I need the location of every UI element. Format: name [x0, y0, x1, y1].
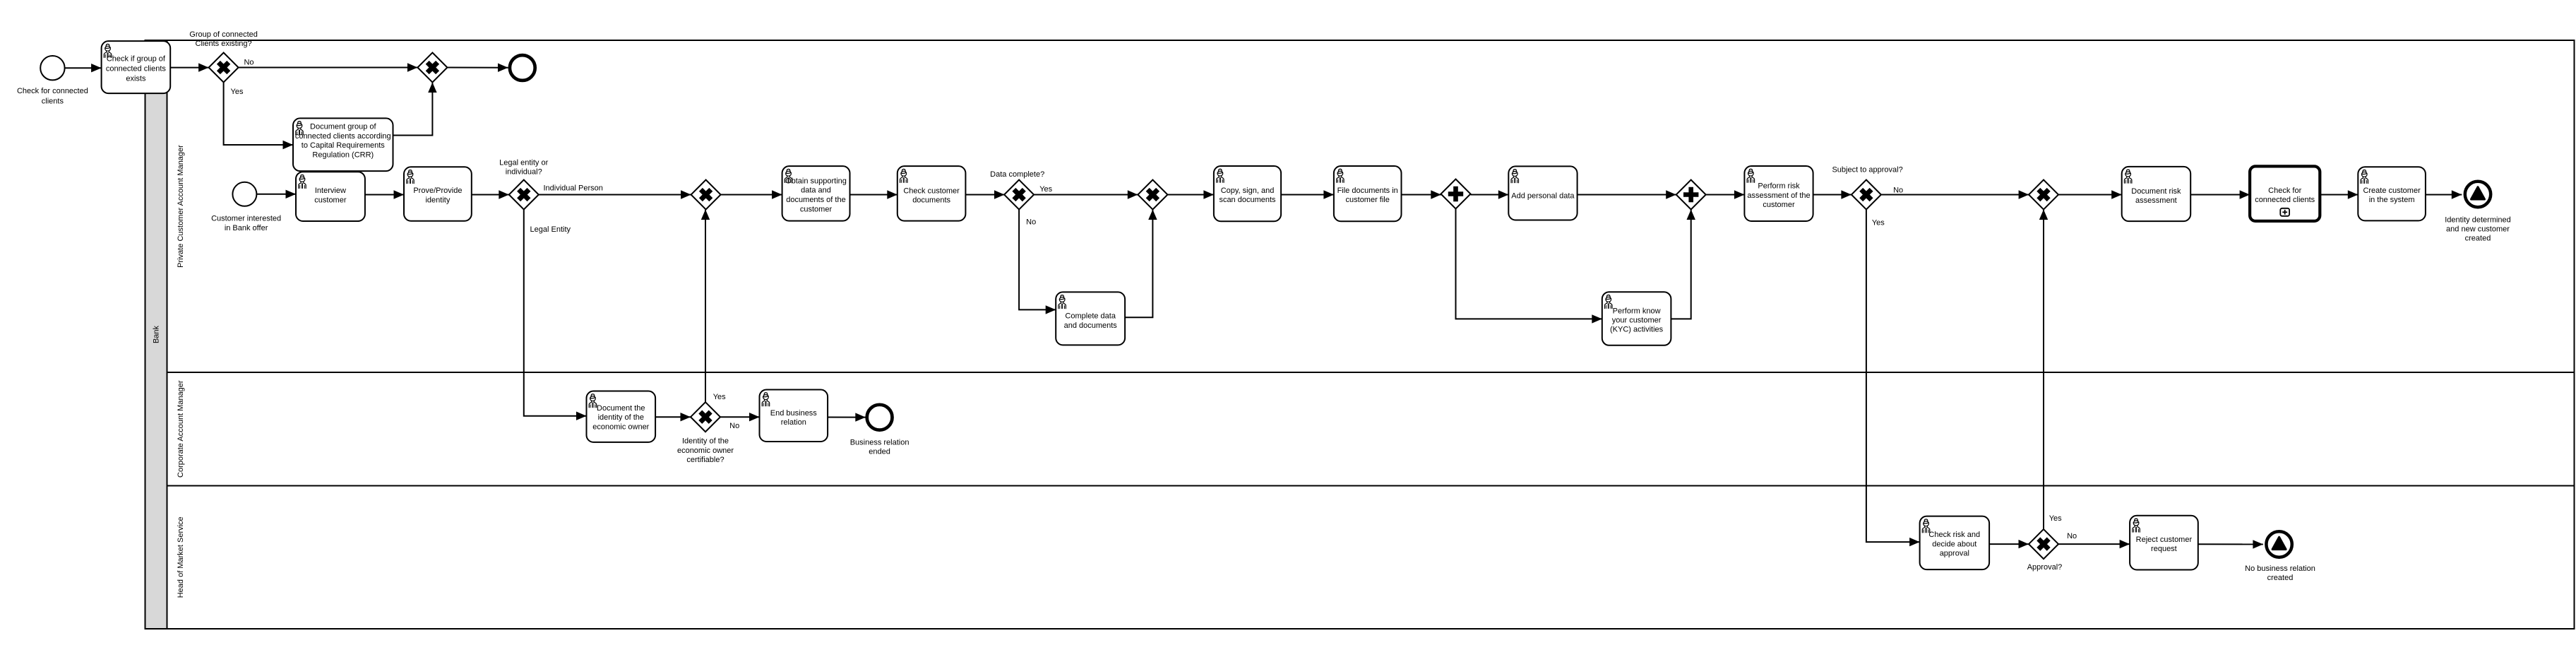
wire parallel1 to Add personal data [1471, 190, 1509, 199]
svg-text:connected clients: connected clients [106, 64, 166, 73]
gateway Data complete? [1004, 180, 1034, 210]
svg-text:customer: customer [800, 206, 833, 214]
svg-text:Obtain supporting: Obtain supporting [785, 177, 847, 185]
task Check if group of connected clients exists [102, 41, 171, 93]
svg-text:Yes: Yes [1039, 185, 1052, 194]
svg-text:Check risk and: Check risk and [1928, 531, 1980, 539]
wire gateway2 to end event1 [447, 64, 508, 72]
task Document risk assessment [2122, 167, 2191, 221]
svg-text:Document the: Document the [597, 404, 645, 413]
svg-text:created: created [2267, 574, 2294, 582]
wire Interview to Prove/Provide [365, 190, 404, 199]
parallel gateway join [1676, 180, 1706, 210]
end event Identity determined (signal) [2465, 182, 2491, 207]
task Reject customer request [2130, 516, 2198, 570]
wire task Check-if-group to gateway1 [170, 63, 208, 71]
svg-text:identity of the: identity of the [598, 413, 644, 422]
svg-text:Complete data: Complete data [1065, 312, 1116, 321]
svg-text:File documents in: File documents in [1337, 187, 1398, 195]
svg-text:data and: data and [801, 187, 831, 195]
wire No to merge gateway8 [1881, 190, 2029, 199]
wire merge6 to Copy sign scan [1167, 190, 1214, 199]
svg-text:approval: approval [1940, 550, 1969, 558]
svg-text:and new customer: and new customer [2446, 225, 2510, 233]
svg-text:Check for: Check for [2268, 187, 2301, 195]
svg-text:Individual Person: Individual Person [544, 184, 603, 193]
svg-text:No business relation: No business relation [2245, 565, 2315, 573]
svg-text:economic owner: economic owner [677, 447, 734, 455]
svg-text:and documents: and documents [1064, 321, 1118, 330]
task Add personal data [1508, 166, 1577, 220]
wire start2 to Interview customer [256, 190, 296, 199]
gateway Subject to approval? [1851, 180, 1881, 210]
svg-text:Prove/Provide: Prove/Provide [413, 187, 462, 195]
svg-text:Check if group of: Check if group of [107, 55, 166, 64]
svg-text:assessment: assessment [2135, 196, 2177, 205]
svg-text:Data complete?: Data complete? [990, 170, 1044, 179]
svg-text:Bank: Bank [153, 325, 161, 343]
svg-text:scan documents: scan documents [1219, 196, 1276, 204]
wire Create-customer to end event [2426, 190, 2462, 199]
task Copy, sign, and scan documents [1214, 166, 1281, 221]
gateway Approval? [2029, 529, 2058, 559]
svg-text:your customer: your customer [1612, 316, 1662, 324]
svg-text:Legal entity or: Legal entity or [499, 158, 548, 167]
svg-text:created: created [2465, 234, 2491, 242]
task Interview customer [296, 172, 365, 221]
svg-text:Head of Market Service: Head of Market Service [177, 516, 185, 598]
task Create customer in the system [2358, 167, 2426, 220]
svg-text:Legal Entity: Legal Entity [530, 225, 571, 234]
merge gateway2 (top) [417, 53, 447, 83]
svg-text:Corporate Account Manager: Corporate Account Manager [177, 380, 185, 478]
wire Legal Entity down to Document-identity [524, 210, 587, 420]
task End business relation [760, 390, 828, 442]
task Check risk and decide about approval [1920, 516, 1990, 570]
gateway Legal entity or individual? [509, 180, 539, 210]
svg-text:Create customer: Create customer [2363, 187, 2421, 195]
svg-text:in Bank offer: in Bank offer [225, 224, 268, 232]
svg-text:relation: relation [781, 418, 806, 427]
svg-text:Yes: Yes [231, 88, 244, 96]
svg-text:End business: End business [770, 409, 818, 418]
wire start1 to task Check-if-group [65, 64, 102, 72]
gateway Group of connected Clients existing? [209, 53, 239, 83]
svg-text:exists: exists [126, 74, 146, 83]
gateway Identity of the economic owner certifiable? [691, 402, 720, 432]
svg-text:No: No [244, 58, 254, 66]
svg-text:Reject customer: Reject customer [2136, 536, 2193, 544]
svg-text:Check customer: Check customer [903, 187, 960, 196]
svg-text:Regulation (CRR): Regulation (CRR) [312, 150, 374, 159]
wire Add-personal to parallel gateway2 [1578, 190, 1676, 199]
wire subprocess to Create customer [2320, 190, 2358, 199]
svg-text:connected clients: connected clients [2255, 196, 2315, 204]
svg-text:Clients existing?: Clients existing? [196, 40, 252, 48]
wire No to merge gateway2 [239, 63, 418, 71]
svg-text:Subject to approval?: Subject to approval? [1832, 166, 1902, 175]
wire Reject to end event [2198, 540, 2263, 548]
task Perform risk assessment of the customer [1744, 166, 1813, 221]
wire Complete-data to merge gateway6 [1125, 210, 1157, 318]
task File documents in customer file [1334, 166, 1402, 221]
task Prove/Provide identity [404, 167, 472, 220]
svg-text:No: No [1893, 187, 1903, 195]
svg-text:Identity of the: Identity of the [682, 437, 729, 446]
svg-text:Yes: Yes [713, 393, 726, 401]
svg-text:identity: identity [425, 196, 450, 205]
svg-text:request: request [2151, 545, 2177, 553]
wire Perform-risk to gateway Subject-to-approval [1813, 190, 1851, 199]
svg-text:Approval?: Approval? [2027, 563, 2063, 572]
svg-text:Identity determined: Identity determined [2445, 216, 2511, 225]
wire Yes down to Check risk (lane3) [1866, 210, 1920, 547]
svg-text:Copy, sign, and: Copy, sign, and [1221, 187, 1275, 195]
task Perform know your customer (KYC) activities [1602, 292, 1671, 345]
svg-text:connected clients according: connected clients according [295, 132, 391, 141]
svg-text:documents: documents [912, 196, 950, 205]
task Check customer documents [898, 166, 966, 221]
svg-text:No: No [1026, 218, 1036, 227]
svg-text:No: No [2067, 532, 2077, 540]
wire parallel2 to Perform risk assessment [1706, 190, 1745, 199]
svg-text:Check for connected: Check for connected [17, 87, 88, 95]
wire Check-docs to gateway Data complete? [965, 190, 1004, 199]
svg-text:customer: customer [1763, 201, 1795, 209]
svg-text:Perform know: Perform know [1613, 307, 1661, 315]
wire Document-risk to subprocess [2190, 190, 2250, 199]
wire Check-risk to gateway Approval? [1989, 540, 2029, 548]
start event Customer interested in Bank offer [232, 182, 256, 206]
lane Private Customer Account Manager [167, 145, 2575, 372]
wire parallel1 down to KYC task [1456, 209, 1602, 324]
svg-text:ended: ended [869, 447, 890, 456]
svg-text:customer file: customer file [1346, 196, 1390, 204]
wire Document-identity to gateway Identity-certifiable [655, 413, 691, 421]
merge gateway4 [691, 180, 721, 210]
svg-text:(KYC) activities: (KYC) activities [1610, 326, 1664, 334]
wire Copy-sign to File documents [1281, 190, 1334, 199]
wire Yes up to merge gateway8 (lane1) [2039, 210, 2048, 530]
wire File-docs to parallel gateway1 [1402, 190, 1441, 199]
task Document group of connected clients according to CRR [293, 118, 393, 171]
svg-text:certifiable?: certifiable? [686, 456, 724, 464]
wire Yes up to merge gateway4 [701, 210, 710, 403]
wire merge8 to Document risk assessment [2058, 190, 2122, 199]
wire No to Reject customer request [2058, 540, 2130, 548]
wire merge4 to Obtain supporting [721, 190, 782, 199]
svg-text:Private Customer Account Manag: Private Customer Account Manager [177, 145, 185, 268]
merge gateway6 [1138, 180, 1167, 210]
svg-text:Document risk: Document risk [2131, 187, 2181, 196]
svg-text:economic owner: economic owner [592, 422, 649, 431]
svg-text:Customer interested: Customer interested [211, 214, 281, 223]
svg-text:individual?: individual? [506, 168, 542, 177]
svg-text:assessment of the: assessment of the [1747, 191, 1810, 200]
wire KYC to parallel gateway2 [1671, 210, 1695, 319]
wire Yes down to task Document group [224, 83, 293, 150]
task Obtain supporting data and documents of the customer [782, 166, 850, 221]
wire Document-group to gateway2 [393, 83, 437, 136]
wire Yes to merge gateway6 [1034, 190, 1138, 199]
merge gateway8 [2029, 180, 2058, 210]
wire No down to Complete data [1019, 210, 1056, 314]
subprocess Check for connected clients (collapsed, thick border) [2250, 166, 2320, 221]
svg-text:Yes: Yes [2049, 514, 2062, 523]
end event No business relation created (signal) [2266, 531, 2291, 557]
wire Prove/Provide to gateway Legal-entity [472, 190, 509, 199]
lane Corporate Account Manager [167, 380, 2575, 485]
start event Check for connected clients [40, 56, 64, 80]
svg-text:to Capital Requirements: to Capital Requirements [302, 141, 386, 150]
wire Individual Person to merge gateway4 [539, 190, 691, 199]
svg-text:Add personal data: Add personal data [1511, 191, 1575, 200]
wire End-business to end event [828, 413, 866, 421]
wire No to End business relation [720, 413, 760, 421]
svg-text:documents of the: documents of the [786, 196, 845, 204]
task Document the identity of the economic owner [587, 391, 656, 442]
svg-text:Group of connected: Group of connected [189, 30, 258, 39]
svg-text:Yes: Yes [1872, 219, 1885, 227]
task Complete data and documents [1056, 292, 1125, 345]
svg-text:in the system: in the system [2369, 196, 2415, 204]
wire Obtain to Check customer documents [850, 190, 898, 199]
svg-text:Interview: Interview [315, 187, 346, 195]
parallel gateway split [1441, 179, 1471, 209]
svg-text:Document group of: Document group of [310, 123, 376, 131]
svg-text:decide about: decide about [1932, 540, 1976, 548]
svg-text:No: No [729, 422, 739, 430]
svg-text:Perform risk: Perform risk [1758, 182, 1800, 191]
svg-text:clients: clients [42, 97, 64, 105]
end event (top, plain) [510, 55, 535, 81]
svg-text:Business relation: Business relation [850, 438, 910, 447]
svg-text:customer: customer [314, 196, 347, 205]
end event Business relation ended [867, 405, 893, 430]
